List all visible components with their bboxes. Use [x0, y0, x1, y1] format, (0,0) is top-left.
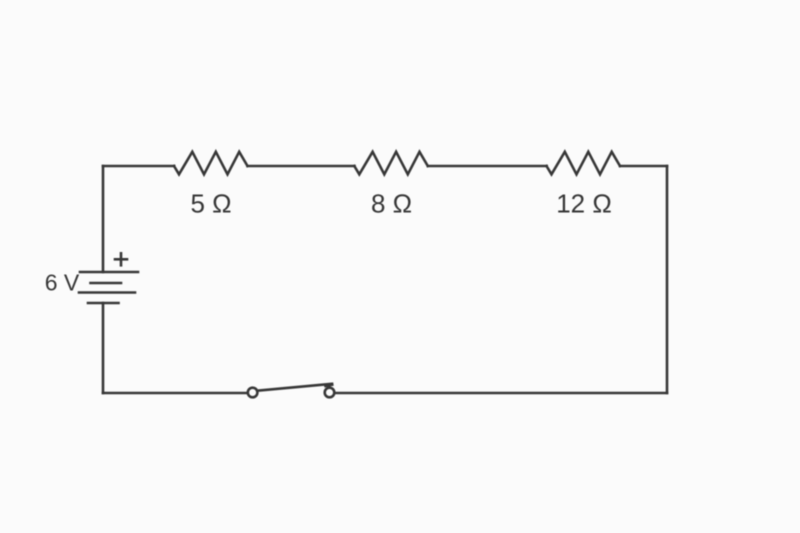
wire left vertical lower (from battery): [102, 303, 105, 393]
wire top-left horizontal: [103, 165, 174, 168]
wire between R2 and R3: [428, 165, 547, 168]
wire right vertical: [666, 166, 669, 393]
battery V1 plate long: [79, 291, 135, 294]
resistor R3 zigzag: [547, 152, 621, 175]
svg-text:5 Ω: 5 Ω: [190, 189, 231, 219]
wire top-right horizontal: [620, 165, 667, 168]
resistor R2 zigzag: [354, 152, 428, 175]
wire between R1 and R2: [248, 165, 355, 168]
battery plus sign vertical: [120, 253, 123, 265]
svg-text:12 Ω: 12 Ω: [556, 189, 612, 219]
svg-text:6 V: 6 V: [45, 270, 80, 296]
switch S1 lever arm: [259, 384, 332, 391]
wire bottom-right horizontal: [336, 392, 667, 395]
switch S1 left contact circle: [248, 388, 258, 398]
battery V1 plate short bottom: [88, 302, 119, 305]
switch S1 lever tip tick: [326, 385, 333, 386]
battery plus sign horizontal: [115, 258, 127, 261]
svg-text:8 Ω: 8 Ω: [371, 189, 412, 219]
battery V1 plate long top: [80, 271, 138, 274]
wire left vertical upper (to battery): [102, 166, 105, 272]
switch S1 right contact circle: [325, 388, 335, 398]
battery V1 plate short: [91, 282, 122, 285]
wire bottom-left horizontal: [103, 392, 246, 395]
resistor R1 zigzag: [174, 152, 248, 175]
